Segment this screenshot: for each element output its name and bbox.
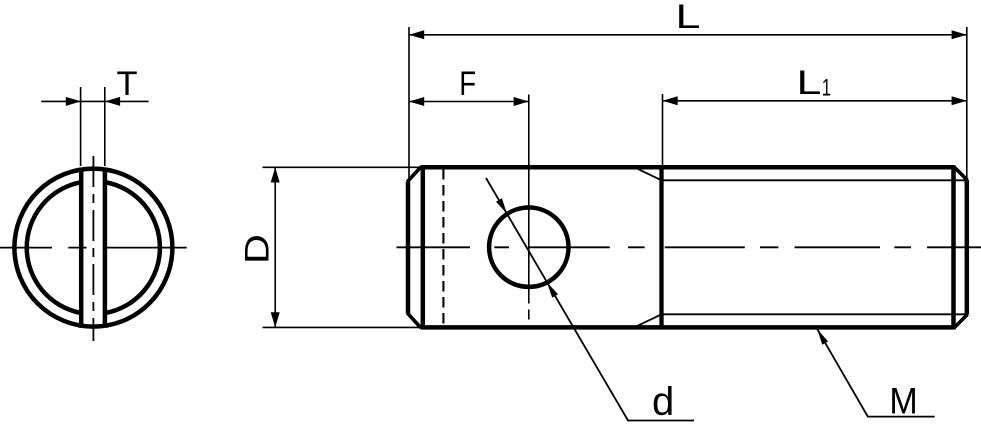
left end face (406, 182, 411, 314)
M leader arrow (points up-left at thread bottom edge) (817, 329, 828, 345)
left bottom chamfer diagonal (407, 313, 421, 328)
thread runout bottom diagonal (637, 314, 662, 326)
cross hole circle d (489, 208, 568, 287)
outer circle (part diameter D) (14, 169, 172, 327)
slot left edge (79, 168, 84, 328)
D dimension arrow top (points up) (271, 167, 280, 182)
hidden slot depth line (dashed) (442, 169, 444, 326)
vertical centerline of left view (92, 156, 94, 341)
step line between head and thread (659, 165, 663, 329)
svg-text:M: M (889, 380, 917, 422)
d leader arrow lower (points up-left at hole edge) (547, 282, 558, 298)
inner circle left arc (chamfer circle) (27, 182, 81, 313)
horizontal centerline of left view (0, 247, 187, 249)
body bottom edge (421, 325, 955, 330)
thread minor diameter bottom line (662, 313, 967, 315)
L1 dimension line (663, 100, 967, 102)
svg-text:L: L (797, 64, 822, 102)
D dimension extension line bottom (263, 326, 422, 328)
thread runout top diagonal (637, 169, 662, 181)
body horizontal centerline (397, 246, 981, 248)
right top chamfer diagonal (954, 167, 968, 181)
svg-text:d: d (652, 380, 674, 424)
right bottom chamfer diagonal (954, 314, 968, 328)
T dimension arrow right (points left) (105, 97, 120, 106)
D dimension line (274, 167, 276, 327)
d leader arrow upper (points down-right at hole edge) (496, 198, 507, 214)
svg-text:L: L (676, 0, 701, 36)
thread minor diameter top line (662, 179, 967, 181)
F dimension arrow right (points right) (514, 97, 529, 106)
svg-text:F: F (459, 64, 476, 103)
D dimension arrow bottom (points down) (271, 312, 280, 327)
F dimension line (409, 101, 529, 103)
T dimension extension line right (104, 87, 106, 166)
L dimension arrow left (points left) (409, 30, 424, 39)
T dimension extension line left (80, 87, 82, 166)
L1 dimension extension line left (662, 94, 664, 166)
left chamfer line (421, 165, 426, 329)
right chamfer line (951, 165, 956, 329)
svg-text:T: T (116, 65, 137, 103)
L1 dimension arrow right (points right) (952, 96, 967, 105)
inner circle right arc (chamfer circle) (105, 182, 160, 313)
L dimension line (409, 34, 967, 36)
T dimension arrow left (points right) (66, 97, 81, 106)
L1 dimension arrow left (points left) (663, 96, 678, 105)
L dimension arrow right (points right) (952, 30, 967, 39)
svg-text:D: D (238, 234, 276, 264)
slot right edge (103, 168, 108, 328)
D dimension extension line top (263, 166, 422, 168)
left top chamfer diagonal (407, 167, 421, 182)
d leader line (486, 178, 694, 421)
right end face (965, 180, 970, 315)
body top edge (421, 165, 955, 170)
cross hole vertical centerline / F extension (528, 95, 530, 320)
F dimension arrow left (points left) (409, 97, 424, 106)
svg-text:1: 1 (822, 75, 831, 102)
T dimension line (41, 100, 148, 102)
M leader line (817, 329, 935, 417)
L dimension extension line right (966, 27, 968, 179)
L dimension extension line left (408, 27, 410, 181)
